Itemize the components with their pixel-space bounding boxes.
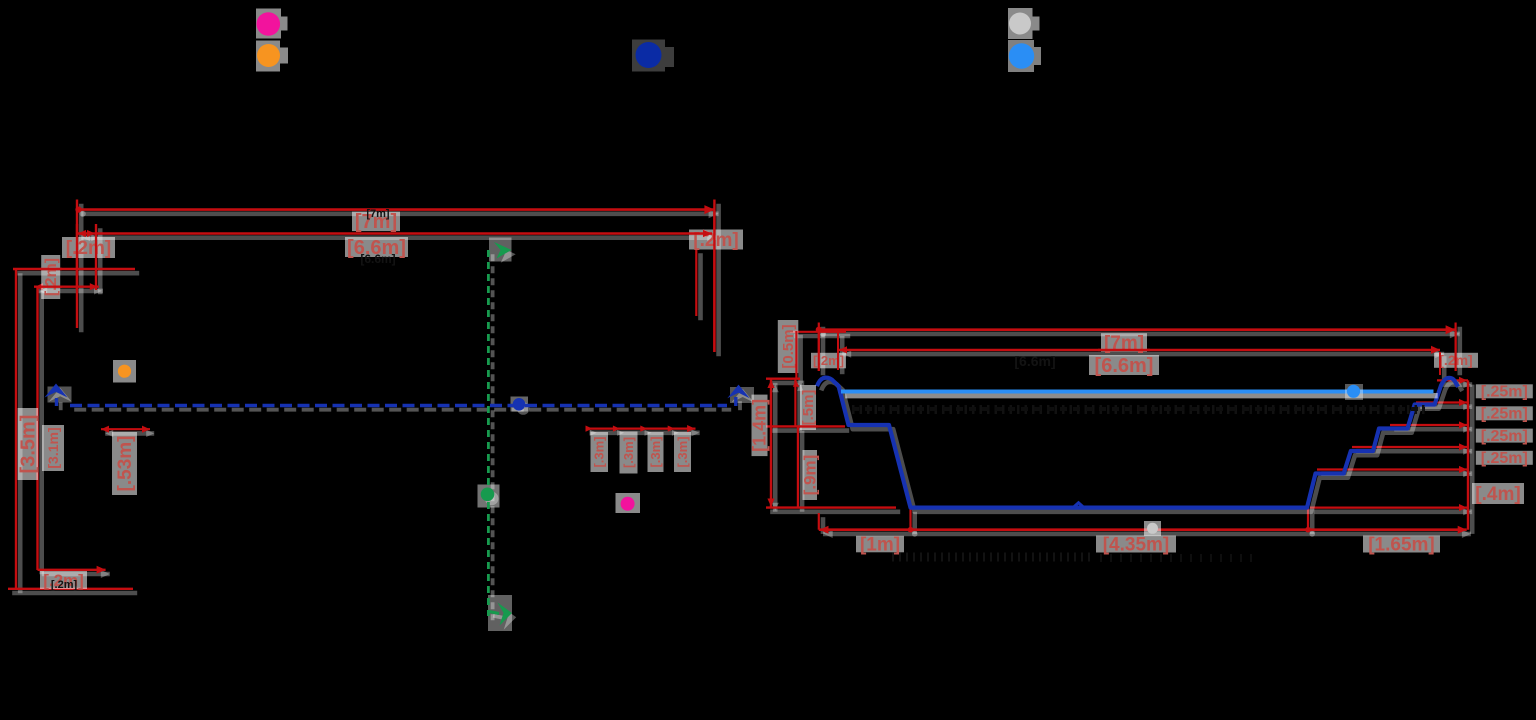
label .2m-tv-bottom (40, 571, 87, 590)
dimension [3.1m] vertical (36, 287, 38, 570)
pool profile dark blue (817, 378, 1458, 508)
svg-text:[0.5m]: [0.5m] (780, 324, 797, 368)
label 7m-tv (352, 211, 400, 233)
green arrow top (494, 242, 512, 259)
label .2m-tv-rot (41, 255, 60, 299)
extension bar right x714 (713, 200, 715, 353)
svg-text:[6.6m]: [6.6m] (1095, 355, 1154, 377)
label .3m-3 (648, 432, 664, 472)
cap ground y378.7 (766, 378, 800, 380)
label .2m-cs-right (1434, 352, 1478, 368)
floor caret (1073, 503, 1084, 508)
svg-text:[4.35m]: [4.35m] (1103, 535, 1170, 556)
green bottom connector (489, 612, 499, 614)
svg-text:[.25m]: [.25m] (1481, 384, 1528, 401)
svg-text:[.5m]: [.5m] (800, 390, 817, 426)
waterline light blue (841, 390, 1434, 394)
depth tick y425 (1390, 424, 1468, 426)
label .9m (801, 450, 820, 500)
cap y589 (8, 588, 133, 590)
bottom chain dimension line (819, 528, 1467, 531)
chain tick x818 (818, 513, 820, 530)
label 6.6m-cs (1089, 355, 1159, 377)
green dashed section line (487, 250, 490, 616)
svg-text:[.2m]: [.2m] (813, 353, 844, 368)
dimension [3.5m] vertical (15, 269, 17, 589)
extension bar x819 (818, 323, 820, 372)
depth tick y507.6 (1310, 507, 1468, 509)
legend swatch navy (632, 40, 674, 72)
centerline start rise (55, 398, 58, 406)
label 0.5m (778, 320, 799, 373)
cap floor y507.6 (766, 506, 896, 508)
svg-text:[.25m]: [.25m] (1481, 450, 1528, 467)
cap y287 (34, 286, 99, 288)
wall tick x1440 (1439, 352, 1441, 375)
svg-text:[.4m]: [.4m] (1475, 484, 1520, 505)
svg-text:[1m]: [1m] (860, 535, 900, 556)
svg-text:[3.5m]: [3.5m] (18, 415, 40, 474)
depth tick y380 (1437, 379, 1468, 381)
centerline end rise (734, 397, 737, 406)
centerline start arrow marker (45, 384, 68, 398)
label .25m-4 (1476, 450, 1533, 467)
extension x696 (695, 249, 697, 316)
label .5m (800, 385, 817, 430)
dimension [7m] cross-section (817, 328, 1456, 331)
svg-text:[.3m]: [.3m] (648, 436, 663, 467)
legend swatch orange (256, 41, 288, 72)
dimension [6.6m] top-view (77, 232, 712, 234)
svg-text:[6.6m]: [6.6m] (1014, 353, 1055, 369)
svg-text:[.25m]: [.25m] (1481, 428, 1528, 445)
label .25m-3 (1476, 428, 1533, 445)
label .3m-1 (591, 432, 609, 472)
svg-text:[.9m]: [.9m] (801, 455, 820, 496)
dimension [1.4m] spine (770, 379, 772, 508)
extension bar left x77 (76, 200, 78, 329)
depth tick y447 (1352, 446, 1468, 448)
label 6.6m-tv (345, 237, 408, 259)
legend swatch dodger-blue (1008, 40, 1041, 72)
blue dashed centerline (70, 404, 727, 407)
svg-text:[1.65m]: [1.65m] (1368, 535, 1435, 556)
label .25m-2 (1476, 406, 1533, 423)
centerline end arrow marker (727, 385, 749, 399)
svg-text:[.2m]: [.2m] (51, 579, 78, 591)
green arrow bottom (498, 603, 513, 626)
dimension [6.6m] cross-section (838, 349, 1440, 351)
orange measurement point (113, 360, 136, 383)
pink spot point (616, 493, 641, 513)
dimension chain 4x[.3m] (586, 428, 696, 430)
dimension [0.5m] wall-top (795, 331, 797, 379)
svg-text:[7m]: [7m] (366, 208, 390, 220)
label 7m-cs (1101, 333, 1147, 354)
chain tick x910 (909, 508, 911, 530)
svg-text:[3.1m]: [3.1m] (45, 427, 61, 468)
chain tick x1308 (1307, 505, 1309, 530)
legend swatch gray (1008, 8, 1040, 39)
overdraw crossing lines (689, 232, 712, 234)
cap y570 (38, 569, 106, 571)
cap ledge y426.4 (766, 425, 845, 427)
label .3m-4 (674, 432, 691, 472)
label 3.5m (18, 408, 40, 480)
svg-text:[1.4m]: [1.4m] (750, 399, 770, 452)
label .25m-1 (1476, 384, 1533, 401)
gray point on bottom chain (1144, 521, 1161, 536)
svg-text:[.3m]: [.3m] (592, 436, 607, 467)
svg-text:[.2m]: [.2m] (66, 238, 111, 259)
ghost dashed row (852, 405, 1425, 414)
depth tick y469.5 (1317, 468, 1468, 470)
dimension [.53m] (101, 428, 150, 430)
extension bar x1455 (1454, 323, 1456, 372)
svg-text:[.25m]: [.25m] (1481, 406, 1528, 423)
extension x96 (95, 224, 97, 290)
label .53m (112, 432, 137, 495)
label 4.35m (1096, 535, 1176, 556)
dodger point on waterline (1345, 384, 1363, 400)
depth tick y402.5 (1416, 401, 1468, 403)
label .2m-cs-left (811, 353, 846, 369)
label 1.65m (1363, 535, 1440, 556)
svg-text:[.3m]: [.3m] (675, 436, 690, 467)
svg-text:[6.6m]: [6.6m] (360, 252, 395, 266)
dimension [7m] top-view (77, 208, 714, 211)
right depth spine x1468 (1467, 380, 1469, 529)
marker boxes (48, 387, 72, 403)
cap y269 (13, 268, 135, 270)
label 1.4m (750, 395, 770, 457)
wall cap left y332 (790, 331, 846, 333)
dimension [.9m] ledge-to-floor (797, 426, 799, 507)
dimension [.5m] ground-to-ledge (794, 379, 796, 427)
svg-text:[.53m]: [.53m] (115, 436, 136, 492)
label .3m-2 (620, 432, 638, 474)
svg-text:[.3m]: [.3m] (621, 437, 636, 468)
svg-text:[.2m]: [.2m] (43, 258, 60, 296)
label .4m (1472, 483, 1524, 505)
label 1m (856, 535, 904, 556)
label 3.1m (42, 425, 64, 471)
legend swatch pink (256, 9, 288, 39)
label .2m-tv-left (62, 237, 115, 259)
label .2m-tv-right (689, 230, 743, 252)
wall tick x838 (837, 332, 839, 370)
